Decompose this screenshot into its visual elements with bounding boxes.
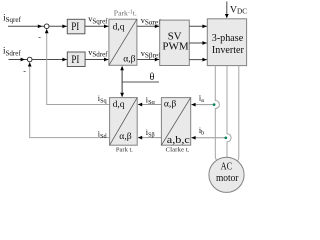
- svg-text:iSq: iSq: [98, 94, 107, 105]
- svg-text:iSd: iSd: [98, 130, 108, 141]
- wire vSdref PI2 to Park-1: [85, 59, 109, 61]
- junction dot ia: [213, 103, 216, 106]
- svg-text:vSαref: vSαref: [141, 16, 162, 27]
- feedback wire iSq: [38, 29, 109, 105]
- wire vSbref Park-1 to SVPWM: [137, 59, 160, 61]
- wire iSqref input: [8, 25, 44, 27]
- wire S2 to PI2: [32, 59, 67, 61]
- svg-text:vSdref: vSdref: [88, 48, 108, 59]
- wire gate a SVPWM to inverter: [189, 25, 207, 27]
- svg-text:ia: ia: [199, 94, 204, 105]
- node theta net: [120, 66, 159, 97]
- wire iSdref input: [9, 59, 28, 61]
- 3-phase inverter U3: [207, 19, 246, 66]
- wire gate b SVPWM to inverter: [189, 42, 207, 44]
- svg-text:d,q: d,q: [113, 22, 125, 33]
- AC motor M1: [209, 157, 244, 192]
- Park transform U4: [110, 98, 138, 146]
- feedback wire iSd: [23, 62, 109, 140]
- phase wire b with sensor hop: [227, 66, 231, 158]
- svg-text:d,q: d,q: [113, 99, 125, 110]
- svg-text:iSqref: iSqref: [3, 12, 21, 24]
- svg-text:PI: PI: [71, 21, 79, 33]
- SV PWM modulator U2: [160, 20, 190, 65]
- summing junction S1: [44, 24, 49, 29]
- svg-text:vSβref: vSβref: [141, 49, 161, 60]
- Clarke transform U5: [161, 98, 190, 146]
- node VDC supply: [226, 2, 228, 15]
- PI controller PI2: [67, 52, 85, 67]
- svg-text:ib: ib: [199, 126, 204, 137]
- svg-text:iSdref: iSdref: [3, 46, 21, 58]
- svg-text:θ: θ: [150, 72, 155, 83]
- svg-text:3-phase: 3-phase: [212, 33, 244, 44]
- svg-text:PI: PI: [71, 54, 79, 66]
- svg-text:motor: motor: [216, 173, 239, 184]
- svg-text:Inverter: Inverter: [212, 45, 244, 56]
- wire gate c SVPWM to inverter: [189, 59, 207, 61]
- summing junction S2: [27, 57, 32, 62]
- svg-text:a,b,c: a,b,c: [167, 135, 191, 146]
- svg-text:Park-1t.: Park-1t.: [114, 8, 137, 17]
- svg-text:PWM: PWM: [162, 41, 189, 53]
- wire ib sensor to Clarke: [191, 126, 226, 139]
- svg-text:Clarke t.: Clarke t.: [166, 147, 190, 154]
- junction dot ib: [224, 136, 227, 139]
- wire ia sensor to Clarke: [191, 94, 214, 107]
- svg-text:α,β: α,β: [123, 53, 135, 64]
- phase wire c: [235, 66, 238, 163]
- svg-text:vSqref: vSqref: [88, 15, 108, 26]
- wire vSaref Park-1 to SVPWM: [137, 25, 160, 27]
- wire S1 to PI1: [49, 25, 67, 27]
- svg-text:iSα: iSα: [146, 96, 156, 107]
- inverse Park transform U1: [109, 19, 137, 65]
- svg-text:Park t.: Park t.: [116, 147, 133, 154]
- svg-text:iSβ: iSβ: [146, 128, 155, 139]
- svg-text:α,β: α,β: [164, 99, 176, 110]
- svg-text:-: -: [23, 67, 26, 76]
- wire isa Clarke to Park: [138, 96, 162, 107]
- phase wire a with sensor hop: [215, 66, 219, 162]
- svg-text:-: -: [38, 33, 41, 42]
- PI controller PI1: [67, 19, 85, 34]
- svg-text:AC: AC: [221, 161, 233, 172]
- wire isb Clarke to Park: [138, 128, 162, 139]
- svg-text:VDC: VDC: [230, 5, 247, 16]
- wire vSqref PI1 to Park-1: [85, 25, 109, 27]
- svg-text:α,β: α,β: [119, 131, 131, 142]
